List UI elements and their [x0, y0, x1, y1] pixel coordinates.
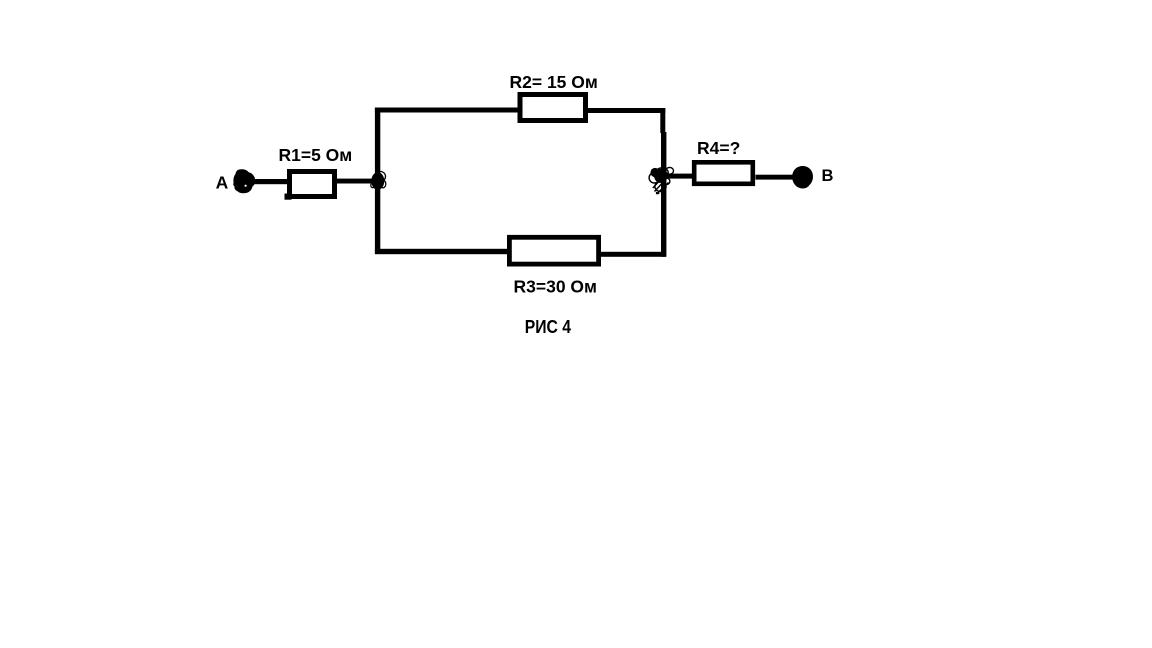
wire top right horizontal: [586, 108, 666, 113]
wire R4 to B: [756, 175, 794, 180]
resistor R2: [520, 95, 586, 121]
svg-text:R3=30 Ом: R3=30 Ом: [514, 276, 597, 296]
svg-text:R1=5 Ом: R1=5 Ом: [279, 145, 353, 165]
wire bottom right horizontal: [598, 252, 666, 257]
wire top left horizontal: [375, 108, 520, 113]
wire left vertical branch: [375, 108, 380, 254]
node (junction) right scribble: [649, 167, 673, 194]
node A terminal: [233, 169, 255, 193]
resistor R4: [694, 162, 753, 184]
wire R1 to left node: [337, 179, 378, 184]
svg-text:R4=?: R4=?: [697, 138, 740, 158]
svg-text:R2= 15 Ом: R2= 15 Ом: [510, 72, 598, 92]
svg-text:РИС 4: РИС 4: [525, 317, 571, 337]
wire bottom left horizontal: [375, 249, 510, 254]
svg-text:B: B: [822, 167, 834, 185]
wire A to R1: [249, 179, 288, 184]
resistor R3: [509, 237, 598, 264]
node (junction) left scribble: [371, 172, 386, 190]
wire right vertical branch: [660, 108, 665, 133]
svg-text:A: A: [216, 172, 229, 192]
resistor R1: [290, 172, 335, 197]
resistor R1 corner tail: [285, 194, 292, 200]
node B terminal: [792, 166, 813, 189]
wire right node to R4: [665, 174, 694, 179]
